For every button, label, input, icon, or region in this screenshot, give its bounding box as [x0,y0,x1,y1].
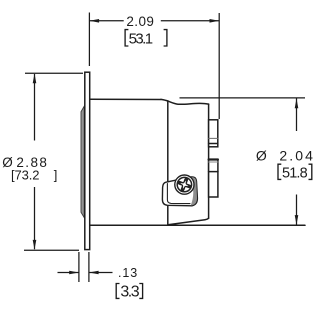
svg-text:53.1: 53.1 [129,31,153,48]
phillips cross arm 2 [180,183,190,187]
rear cap bottom edge [168,218,209,225]
body / rear cap boundary line [167,101,169,225]
svg-text:[73.2: [73.2 [11,168,39,183]
dim text [53.1] left bracket [125,30,128,46]
svg-text:2.09: 2.09 [126,14,154,29]
dim .13 right arrowhead [89,271,99,275]
dim .13 right extension line [88,252,90,282]
dim 2.04 dimension line lower segment [296,195,298,225]
dim 2.09 dimension line left segment [89,20,123,22]
dimension lines [24,13,305,283]
dim 2.09 right arrowhead [210,19,220,23]
screw head inner circle [177,177,191,191]
dim .13 right arrow tail [89,272,112,274]
svg-text:51.8: 51.8 [282,166,308,182]
svg-text:Ø: Ø [256,147,267,163]
screw housing inner lip [167,184,190,204]
dim 2.88 top extension line [25,72,83,74]
flange front bevel (gray strip) [81,106,84,217]
screw head outer circle [175,175,194,194]
body bottom edge + right extension line [90,224,305,226]
dim text [53.1] right bracket [164,30,167,46]
dim text [3.3] left bracket [116,284,119,299]
dim 2.88 bottom arrowhead [33,240,37,250]
dim text [51.8] right bracket [309,164,312,179]
dim 2.09 right extension line [218,13,220,119]
dim .13 left arrow tail [58,272,79,274]
svg-text:]: ] [54,168,58,183]
dim 2.04 bottom arrowhead [295,215,299,225]
dim 2.04 top arrowhead [295,99,299,109]
dim text [3.3] right bracket [139,284,142,299]
dim 2.88 top arrowhead [33,74,37,84]
dim 2.04 top extension line [180,97,306,99]
svg-text:3.3: 3.3 [120,284,139,301]
phillips cross white star center [180,181,188,189]
dim text [51.8] left bracket [278,164,281,179]
dim 2.88 dimension line lower segment [34,187,36,249]
rear cap top edge (wavy) [161,99,209,104]
screw housing shading [189,177,198,205]
rear cap right edge [208,104,210,218]
dim 2.09 left arrowhead [89,19,99,23]
cam screw housing [162,175,197,206]
body top edge [90,98,161,100]
cam tab lower [209,160,218,198]
cam tab upper [209,120,218,147]
svg-text:2.04: 2.04 [279,147,315,163]
dim 2.88 dimension line upper segment [34,74,36,141]
dim 2.09 left extension line [88,13,90,67]
dim .13 left extension line [78,252,80,282]
dim 2.09 dimension line right segment [161,20,219,22]
dim 2.88 bottom extension line [24,249,79,251]
dim .13 left arrowhead [69,271,79,275]
flange plate [85,72,90,249]
phillips cross arm 1 [183,180,187,190]
svg-text:.13: .13 [118,266,138,280]
dim 2.04 dimension line upper segment [296,99,298,132]
screw housing outline [162,177,197,206]
